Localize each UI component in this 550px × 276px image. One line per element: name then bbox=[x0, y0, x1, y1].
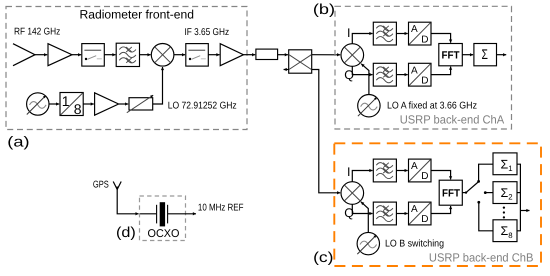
svg-text:A: A bbox=[411, 24, 418, 35]
svg-text:8: 8 bbox=[74, 101, 82, 117]
svg-text:Σ1: Σ1 bbox=[501, 157, 513, 173]
svg-text:Σ8: Σ8 bbox=[501, 224, 513, 240]
svg-text:RF 142 GHz: RF 142 GHz bbox=[14, 26, 60, 37]
svg-text:FFT: FFT bbox=[442, 188, 461, 200]
svg-text:LO B switching: LO B switching bbox=[385, 238, 444, 249]
svg-text:FFT: FFT bbox=[442, 50, 461, 62]
svg-text:IF 3.65 GHz: IF 3.65 GHz bbox=[185, 27, 230, 38]
svg-text:Σ: Σ bbox=[482, 46, 489, 62]
svg-text:10 MHz REF: 10 MHz REF bbox=[198, 203, 244, 214]
svg-text:D: D bbox=[421, 214, 428, 225]
svg-text:GPS: GPS bbox=[93, 180, 109, 191]
svg-text:D: D bbox=[421, 34, 428, 45]
svg-text:LO 72.91252 GHz: LO 72.91252 GHz bbox=[168, 101, 237, 112]
svg-text:A: A bbox=[411, 161, 418, 172]
svg-text:Radiometer front-end: Radiometer front-end bbox=[80, 7, 195, 21]
svg-text:1: 1 bbox=[62, 93, 70, 109]
svg-text:Σ2: Σ2 bbox=[501, 186, 513, 202]
svg-text:LO A fixed at 3.66 GHz: LO A fixed at 3.66 GHz bbox=[387, 100, 477, 111]
svg-text:I: I bbox=[347, 26, 350, 40]
svg-text:D: D bbox=[421, 75, 428, 86]
svg-text:A: A bbox=[411, 65, 418, 76]
svg-text:D: D bbox=[421, 171, 428, 182]
svg-text:USRP back-end ChA: USRP back-end ChA bbox=[400, 113, 505, 127]
svg-text:(a): (a) bbox=[7, 135, 29, 151]
svg-text:(d): (d) bbox=[116, 225, 136, 241]
svg-text:USRP back-end ChB: USRP back-end ChB bbox=[429, 250, 534, 264]
svg-text:(c): (c) bbox=[313, 250, 333, 266]
svg-text:A: A bbox=[411, 204, 418, 215]
svg-text:(b): (b) bbox=[313, 2, 335, 18]
svg-text:OCXO: OCXO bbox=[148, 228, 180, 240]
svg-text:I: I bbox=[347, 165, 350, 179]
